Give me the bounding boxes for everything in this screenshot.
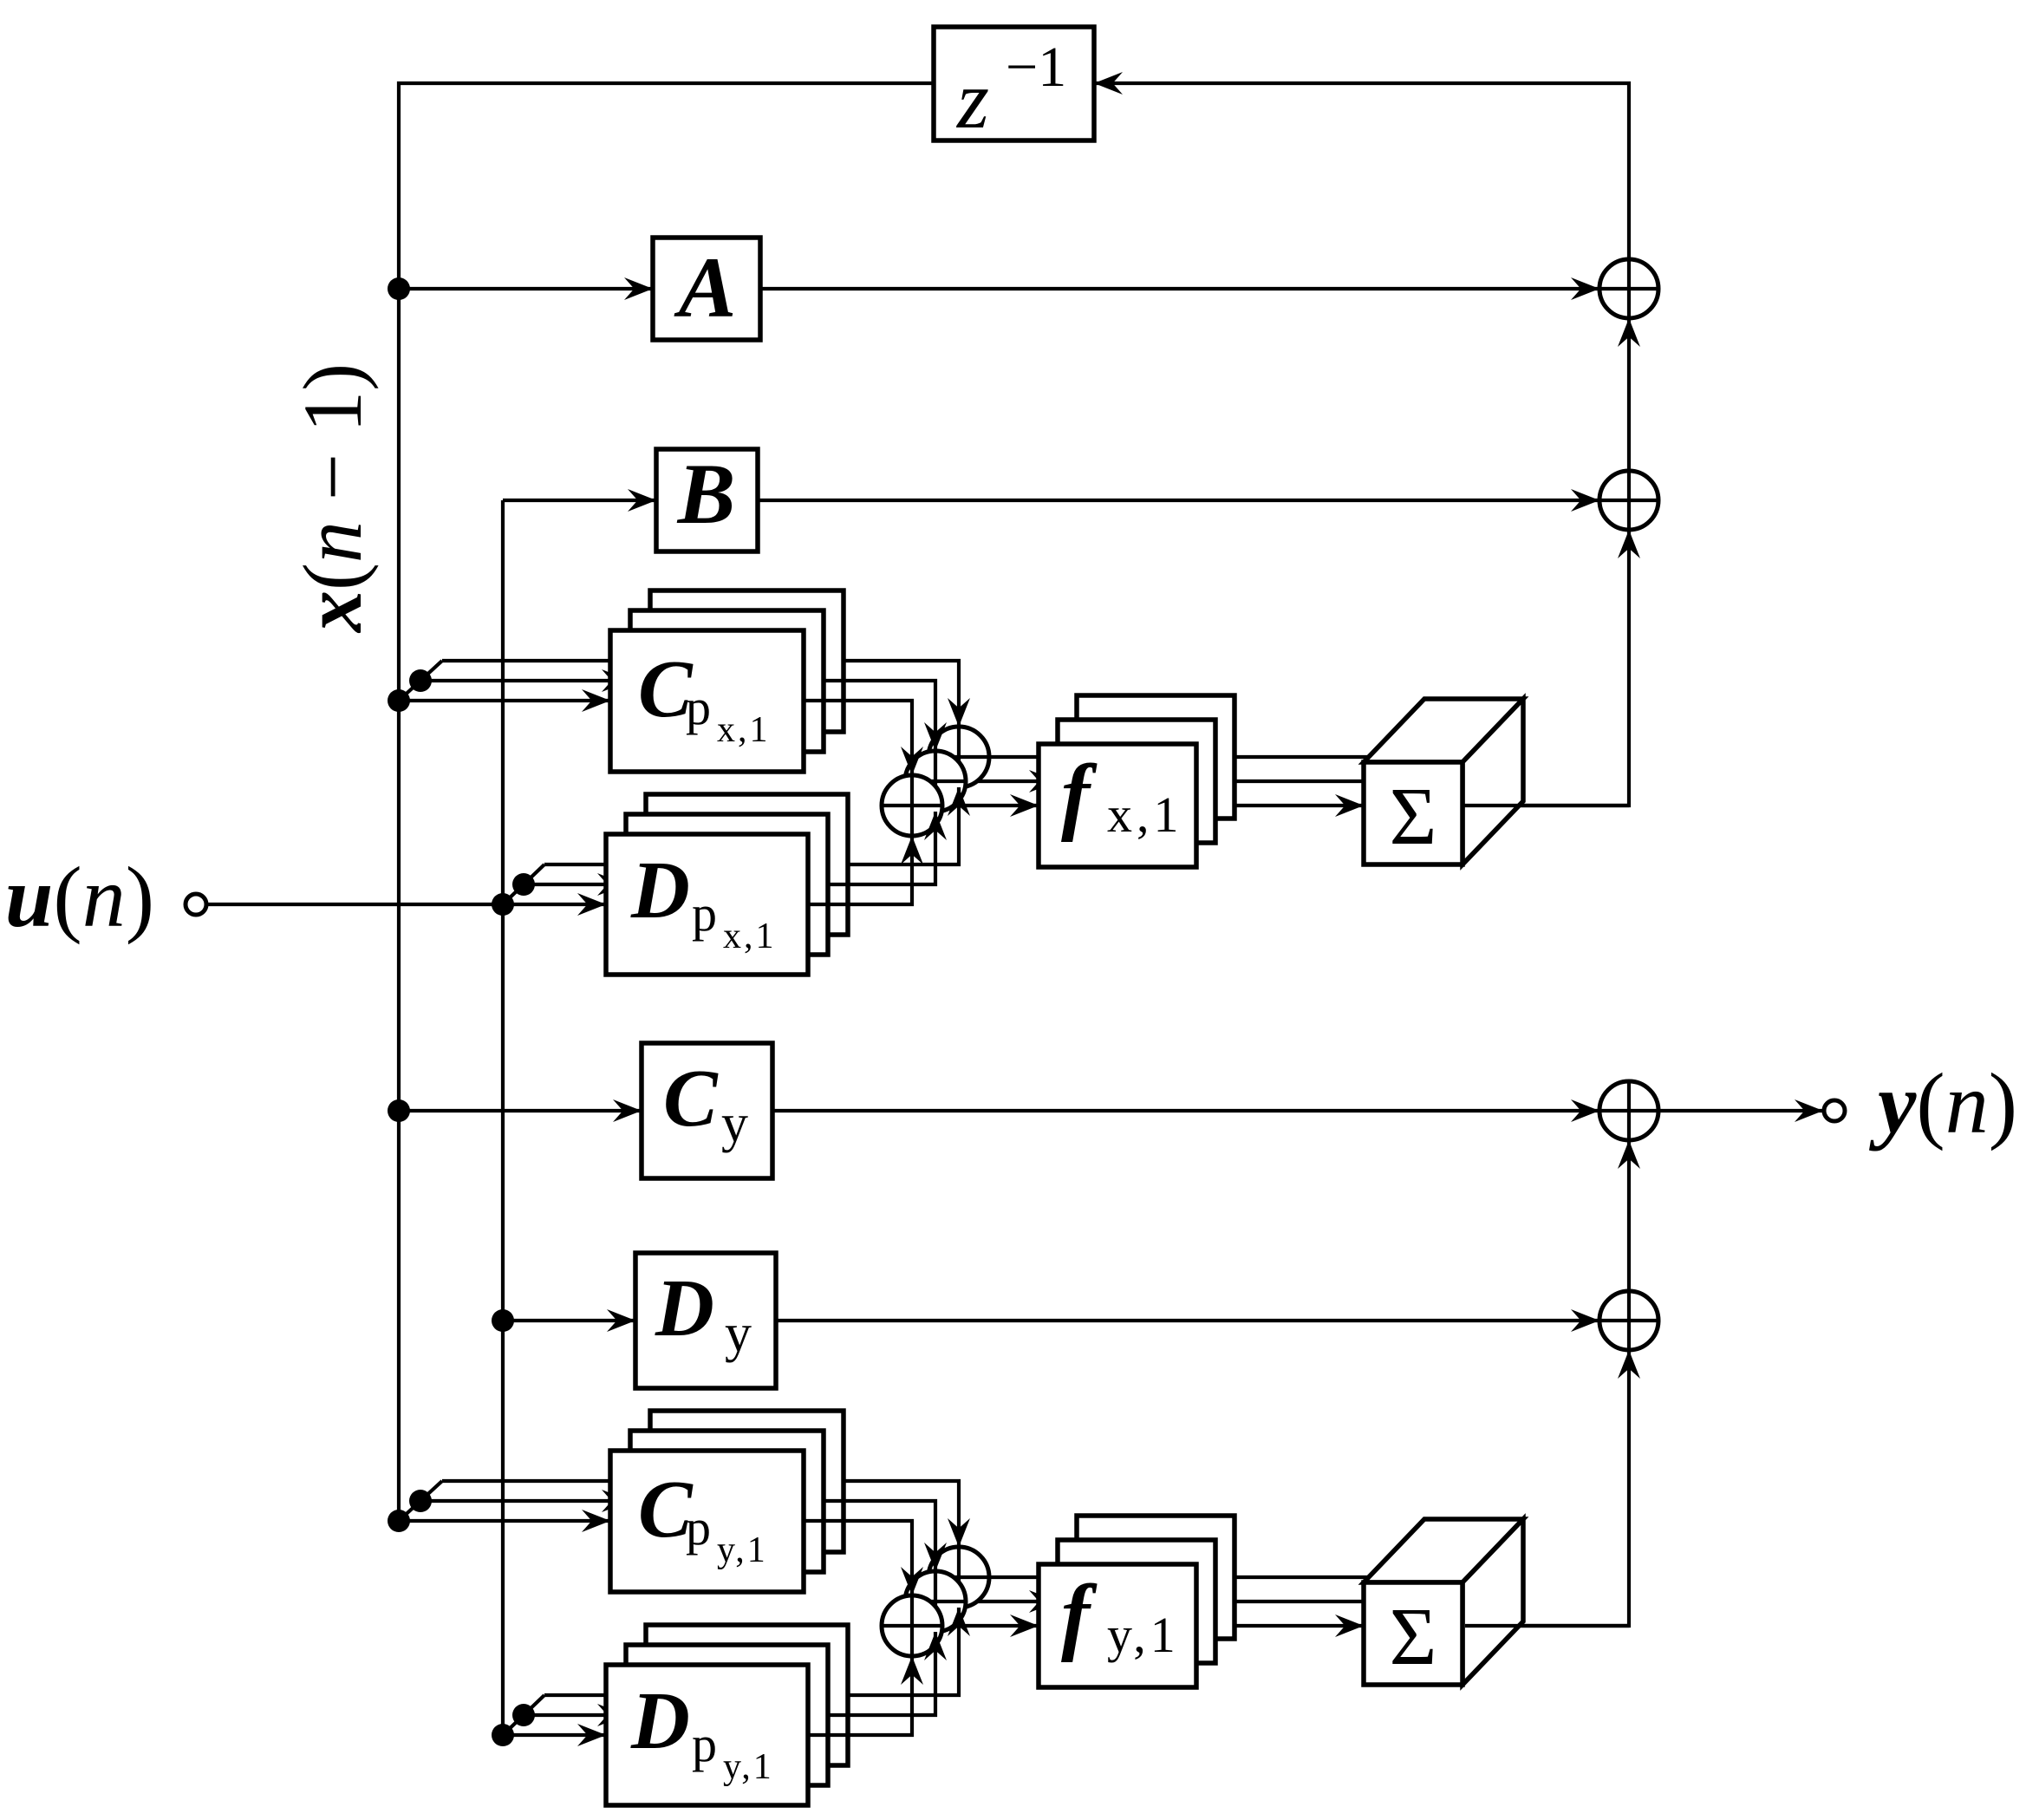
adder Dy row [1599, 1291, 1658, 1350]
wire x-bus to block A [399, 287, 653, 290]
wire Sigma x to adder B [1465, 530, 1629, 806]
delay block z-1 [934, 27, 1094, 140]
node x-bus to C_px,1 [388, 689, 410, 712]
block B [656, 449, 758, 551]
wire adder cluster to f_y,1 pages [942, 1624, 1039, 1628]
svg-text:x(n − 1): x(n − 1) [286, 363, 379, 634]
wire u(n) bus [501, 500, 505, 1735]
wire x-bus to C_px,1 page1 [399, 699, 610, 702]
svg-text:Σ: Σ [1390, 1592, 1437, 1682]
svg-text:u(n): u(n) [5, 849, 154, 945]
svg-text:y,1: y,1 [1107, 1607, 1180, 1663]
svg-text:z: z [955, 54, 989, 146]
svg-text:D: D [655, 1263, 714, 1354]
output terminal y(n) [1824, 1100, 1845, 1121]
wire x-bus to C_py,1 page1 [399, 1519, 610, 1523]
wire x-bus to C_px,1 page3 [420, 661, 442, 681]
block C_px,1 stack [650, 590, 844, 732]
wire adder to z-1 input [1094, 83, 1629, 259]
block D_px,1 stack [646, 794, 848, 935]
svg-text:y,1: y,1 [723, 1747, 774, 1787]
wire x-bus to C_py,1 page2 [399, 1501, 420, 1521]
block f_y,1 stack [1077, 1516, 1234, 1639]
svg-text:y: y [725, 1304, 752, 1363]
wire u-bus to D_px,1 page2 [503, 884, 524, 904]
block D_py,1 stack [646, 1625, 848, 1765]
wire u-bus to D_py,1 page3 [524, 1695, 544, 1715]
summation block Sigma y [1364, 1519, 1523, 1582]
wires C_px,1 outputs into cluster [804, 701, 912, 775]
wire block Cy to adder [772, 1109, 1599, 1112]
wire z-1 output feedback to x(n-1) bus [399, 83, 934, 1521]
wire block A to adder [760, 287, 1599, 290]
svg-text:p: p [686, 679, 711, 735]
block C_y [642, 1043, 772, 1178]
node x-bus to C_py,1 [388, 1510, 410, 1532]
wire f_y,1 outputs to Sigma [1196, 1624, 1364, 1628]
svg-text:p: p [692, 885, 717, 942]
svg-text:A: A [674, 239, 737, 336]
svg-text:D: D [630, 1676, 690, 1766]
wire x-bus to C_py,1 page3 [420, 1481, 442, 1501]
wire Dy adder to Cy adder [1627, 1140, 1631, 1291]
wire u-bus to block Dy [503, 1319, 635, 1322]
svg-text:x,1: x,1 [717, 710, 771, 750]
node x-bus to Cy [388, 1099, 410, 1122]
wire Sigma y output over face [1465, 1624, 1629, 1628]
adder B row [1599, 471, 1658, 530]
svg-text:−1: −1 [1006, 36, 1066, 99]
svg-text:p: p [686, 1499, 711, 1556]
wire Sigma y to adder Dy [1465, 1350, 1629, 1626]
block A [653, 238, 760, 340]
svg-text:D: D [630, 845, 690, 936]
wire u-bus to D_py,1 page2 [503, 1715, 524, 1735]
svg-text:x,1: x,1 [1107, 786, 1183, 843]
svg-text:B: B [677, 446, 736, 542]
wire adder cluster to f_x,1 pages [942, 804, 1039, 807]
svg-text:C: C [663, 1054, 719, 1144]
block D_y [635, 1253, 776, 1388]
wire adder B to adder A [1627, 318, 1631, 471]
wire x-bus to C_px,1 page2 [399, 681, 420, 701]
wire x-bus to block Cy [399, 1109, 642, 1112]
svg-text:y: y [721, 1094, 748, 1153]
svg-text:Σ: Σ [1390, 772, 1437, 862]
adder Cy row [1599, 1081, 1658, 1140]
wire u(n) input [206, 903, 503, 906]
svg-text:p: p [692, 1716, 717, 1772]
wire u-bus to D_py,1 page1 [503, 1733, 606, 1737]
input terminal u(n) [186, 894, 206, 915]
summation block Sigma x [1364, 699, 1523, 762]
node u-bus to D_py,1 [492, 1724, 514, 1746]
wires D_py,1 outputs into cluster [808, 1656, 912, 1735]
wire u-bus to D_px,1 page1 [503, 903, 606, 906]
wire Cy adder to y(n) output [1658, 1109, 1823, 1112]
wire f_x,1 outputs to Sigma [1196, 804, 1364, 807]
adder cluster x (3 circles) [928, 727, 989, 787]
wires D_px,1 outputs into cluster [808, 836, 912, 904]
adder cluster y (3 circles) [928, 1547, 989, 1608]
svg-text:x,1: x,1 [723, 917, 777, 956]
block C_py,1 stack [650, 1411, 844, 1552]
wire block B to adder [758, 499, 1599, 502]
svg-text:y(n): y(n) [1868, 1055, 2017, 1151]
adder A row [1599, 259, 1658, 318]
wire Sigma x output stub [1463, 804, 1465, 807]
wire u-bus to D_px,1 page3 [524, 864, 544, 884]
wire Sigma x output over face [1465, 804, 1629, 807]
wires C_py,1 outputs into cluster [804, 1521, 912, 1595]
block f_x,1 stack [1077, 695, 1234, 819]
wire block Dy to adder [776, 1319, 1599, 1322]
node x-bus to A [388, 277, 410, 300]
node u-bus to D_px,1 [492, 893, 514, 916]
node u-bus to Dy [492, 1309, 514, 1332]
wire u-bus to block B [503, 499, 656, 502]
svg-text:y,1: y,1 [717, 1530, 768, 1570]
